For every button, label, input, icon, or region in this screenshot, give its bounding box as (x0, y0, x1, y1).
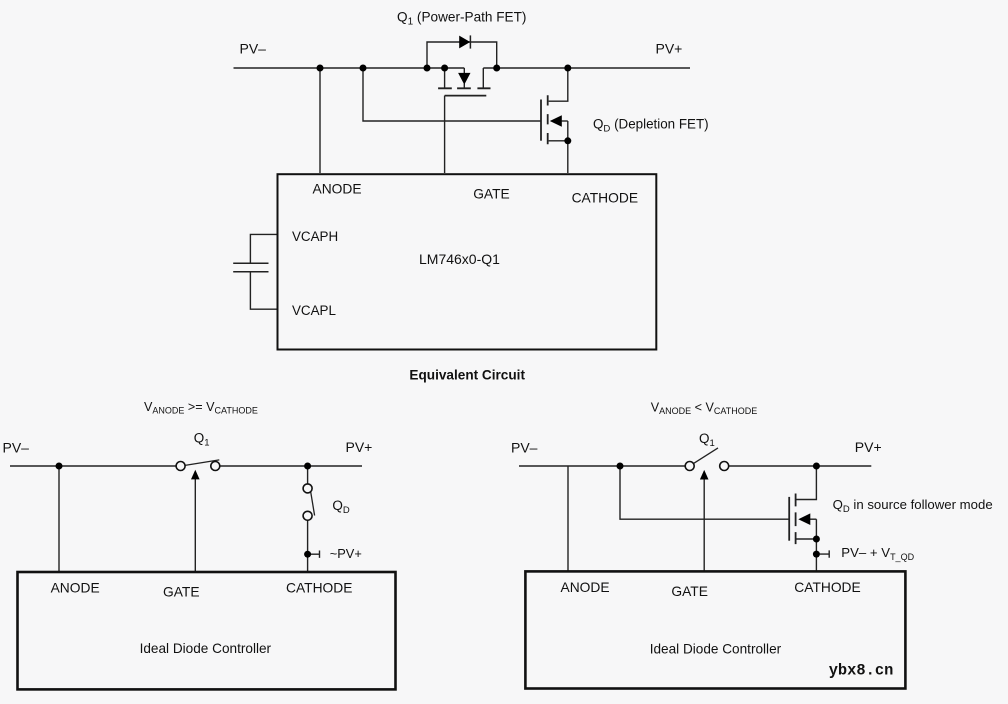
wire GATE arrow shaft (BR) (703, 479, 705, 571)
node rail/ANODE junction (BL) (56, 463, 63, 470)
node on rail at diode loop left (424, 65, 431, 72)
switch Q1 left contact circle (BL) (176, 462, 185, 471)
svg-text:GATE: GATE (671, 584, 708, 599)
transistor QD drain wire from rail (549, 68, 568, 101)
svg-text:Ideal Diode Controller: Ideal Diode Controller (650, 642, 782, 657)
controller box U1 LM746x0-Q1 (278, 174, 657, 349)
node PV-+VT_QD junction (BR) (813, 551, 820, 558)
svg-text:PV–: PV– (3, 439, 30, 455)
svg-text:ANODE: ANODE (561, 580, 610, 595)
svg-text:CATHODE: CATHODE (286, 580, 352, 595)
node on rail at Q1 source (441, 65, 448, 72)
transistor QD channel segments (BR) (795, 494, 797, 545)
wire from rail node down-right to QD gate (363, 68, 541, 121)
node on rail at QD-gate drop (360, 65, 367, 72)
wire ANODE drop from rail to controller box (319, 68, 321, 173)
transistor QD body arrow right segment (BR) (810, 518, 816, 520)
node rail/QD-drain junction (BR) (813, 463, 820, 470)
wire ~PV+ stub with tick (BL) (311, 551, 320, 558)
node rail/QD branch junction (BL) (304, 463, 311, 470)
svg-text:PV–: PV– (240, 41, 267, 57)
wire ANODE drop to controller (BL) (58, 466, 60, 571)
switch QD top contact circle (BL) (303, 484, 312, 493)
transistor Q1 gate bar (445, 95, 487, 97)
wire rail to QD switch top contact (BL) (307, 466, 309, 484)
arrowhead GATE control arrow (BL) (191, 470, 200, 480)
wire PV- rail left segment (BR) (519, 465, 685, 467)
capacitor C1 bottom lead to VCAPL (250, 272, 277, 309)
wire QD source (CATHODE) down to controller box (567, 141, 569, 173)
switch QD bottom contact circle (BL) (303, 511, 312, 520)
node on rail at QD drain drop (564, 65, 571, 72)
svg-text:ybx8.cn: ybx8.cn (829, 662, 894, 680)
svg-text:CATHODE: CATHODE (572, 191, 638, 206)
wire QD body-to-source vertical (567, 121, 569, 141)
capacitor C1 top lead from VCAPH (250, 234, 277, 263)
svg-text:ANODE: ANODE (313, 182, 362, 197)
node QD source junction (BR) (813, 536, 820, 543)
wire PV- rail left segment (234, 67, 465, 69)
controller box Ideal Diode Controller (BL) (18, 572, 396, 689)
svg-text:VCAPH: VCAPH (292, 229, 338, 244)
diode D1 body (Q1 body diode) triangle (459, 36, 470, 49)
transistor Q1 channel segments (438, 87, 490, 89)
switch QD lever (BL) (311, 492, 315, 516)
switch Q1 right contact circle (BL) (211, 462, 220, 471)
svg-text:~PV+: ~PV+ (330, 546, 362, 561)
wire PV+ rail right segment (BR) (729, 465, 872, 467)
wire PV+ rail right segment (BL) (220, 465, 362, 467)
transistor Q1 body arrow (down) (458, 73, 470, 85)
arrowhead GATE control arrow (BR) (700, 470, 709, 480)
svg-text:Ideal Diode Controller: Ideal Diode Controller (140, 641, 272, 656)
transistor QD gate bar (540, 100, 542, 141)
capacitor C1 plates (233, 263, 268, 272)
transistor Q1 body arrow tail to channel (463, 84, 465, 89)
wire QD switch bottom contact to CATHODE node (BL) (307, 520, 309, 571)
switch Q1 right contact circle (BR) (720, 462, 729, 471)
svg-text:PV+: PV+ (346, 439, 373, 455)
node on rail at ANODE drop (317, 65, 324, 72)
transistor QD gate bar (BR) (788, 497, 790, 541)
switch Q1 lever (closed) (BL) (185, 460, 219, 466)
wire Q1 gate drop to controller GATE pin (444, 96, 446, 173)
transistor Q1 left terminal (source leg) (444, 68, 446, 88)
node at QD source / CATHODE (564, 137, 571, 144)
transistor QD drain wire from rail (BR) (796, 466, 816, 500)
svg-text:CATHODE: CATHODE (794, 580, 860, 595)
transistor Q1 body connection drop to arrow (463, 68, 465, 73)
transistor QD body arrow (left) (550, 115, 562, 126)
svg-text:PV–: PV– (511, 440, 538, 456)
svg-text:PV+: PV+ (656, 40, 683, 56)
wire PV- rail left segment (BL) (10, 465, 176, 467)
switch Q1 left contact circle (BR) (685, 462, 694, 471)
node on rail at diode loop right / Q1 drain (493, 65, 500, 72)
wire GATE arrow shaft (BL) (194, 479, 196, 571)
svg-text:PV+: PV+ (855, 439, 882, 455)
transistor QD source stub (BR) (796, 538, 816, 540)
wire PV-+VT_QD stub with tick (BR) (820, 550, 830, 557)
node rail/QD-gate junction (BR) (617, 463, 624, 470)
node ~PV+ junction (BL) (304, 551, 311, 558)
transistor QD channel segments (547, 95, 549, 144)
svg-text:ANODE: ANODE (51, 580, 100, 595)
wire PV+ rail right segment (483, 67, 690, 69)
wire QD source down to controller CATHODE (BR) (815, 539, 817, 571)
controller box Ideal Diode Controller (BR) (525, 571, 905, 688)
wire rail node down to QD gate (BR) (620, 466, 789, 519)
svg-text:Equivalent Circuit: Equivalent Circuit (409, 368, 525, 383)
svg-text:VCAPL: VCAPL (292, 303, 336, 318)
transistor QD body arrow right segment (562, 120, 568, 122)
transistor Q1 right terminal (drain leg) (482, 68, 484, 88)
wire QD body-to-source vertical (BR) (815, 519, 817, 539)
transistor QD source stub (549, 140, 568, 142)
transistor QD body arrow (left) (BR) (798, 513, 810, 525)
switch Q1 lever (open) (BR) (694, 448, 718, 464)
svg-text:GATE: GATE (473, 187, 510, 202)
diode D1 cathode bar (469, 35, 471, 48)
wire body-diode loop of Q1 above rail (427, 42, 497, 68)
svg-text:GATE: GATE (163, 584, 200, 599)
wire ANODE drop to controller (BR) (567, 466, 569, 571)
svg-text:LM746x0-Q1: LM746x0-Q1 (419, 251, 500, 267)
